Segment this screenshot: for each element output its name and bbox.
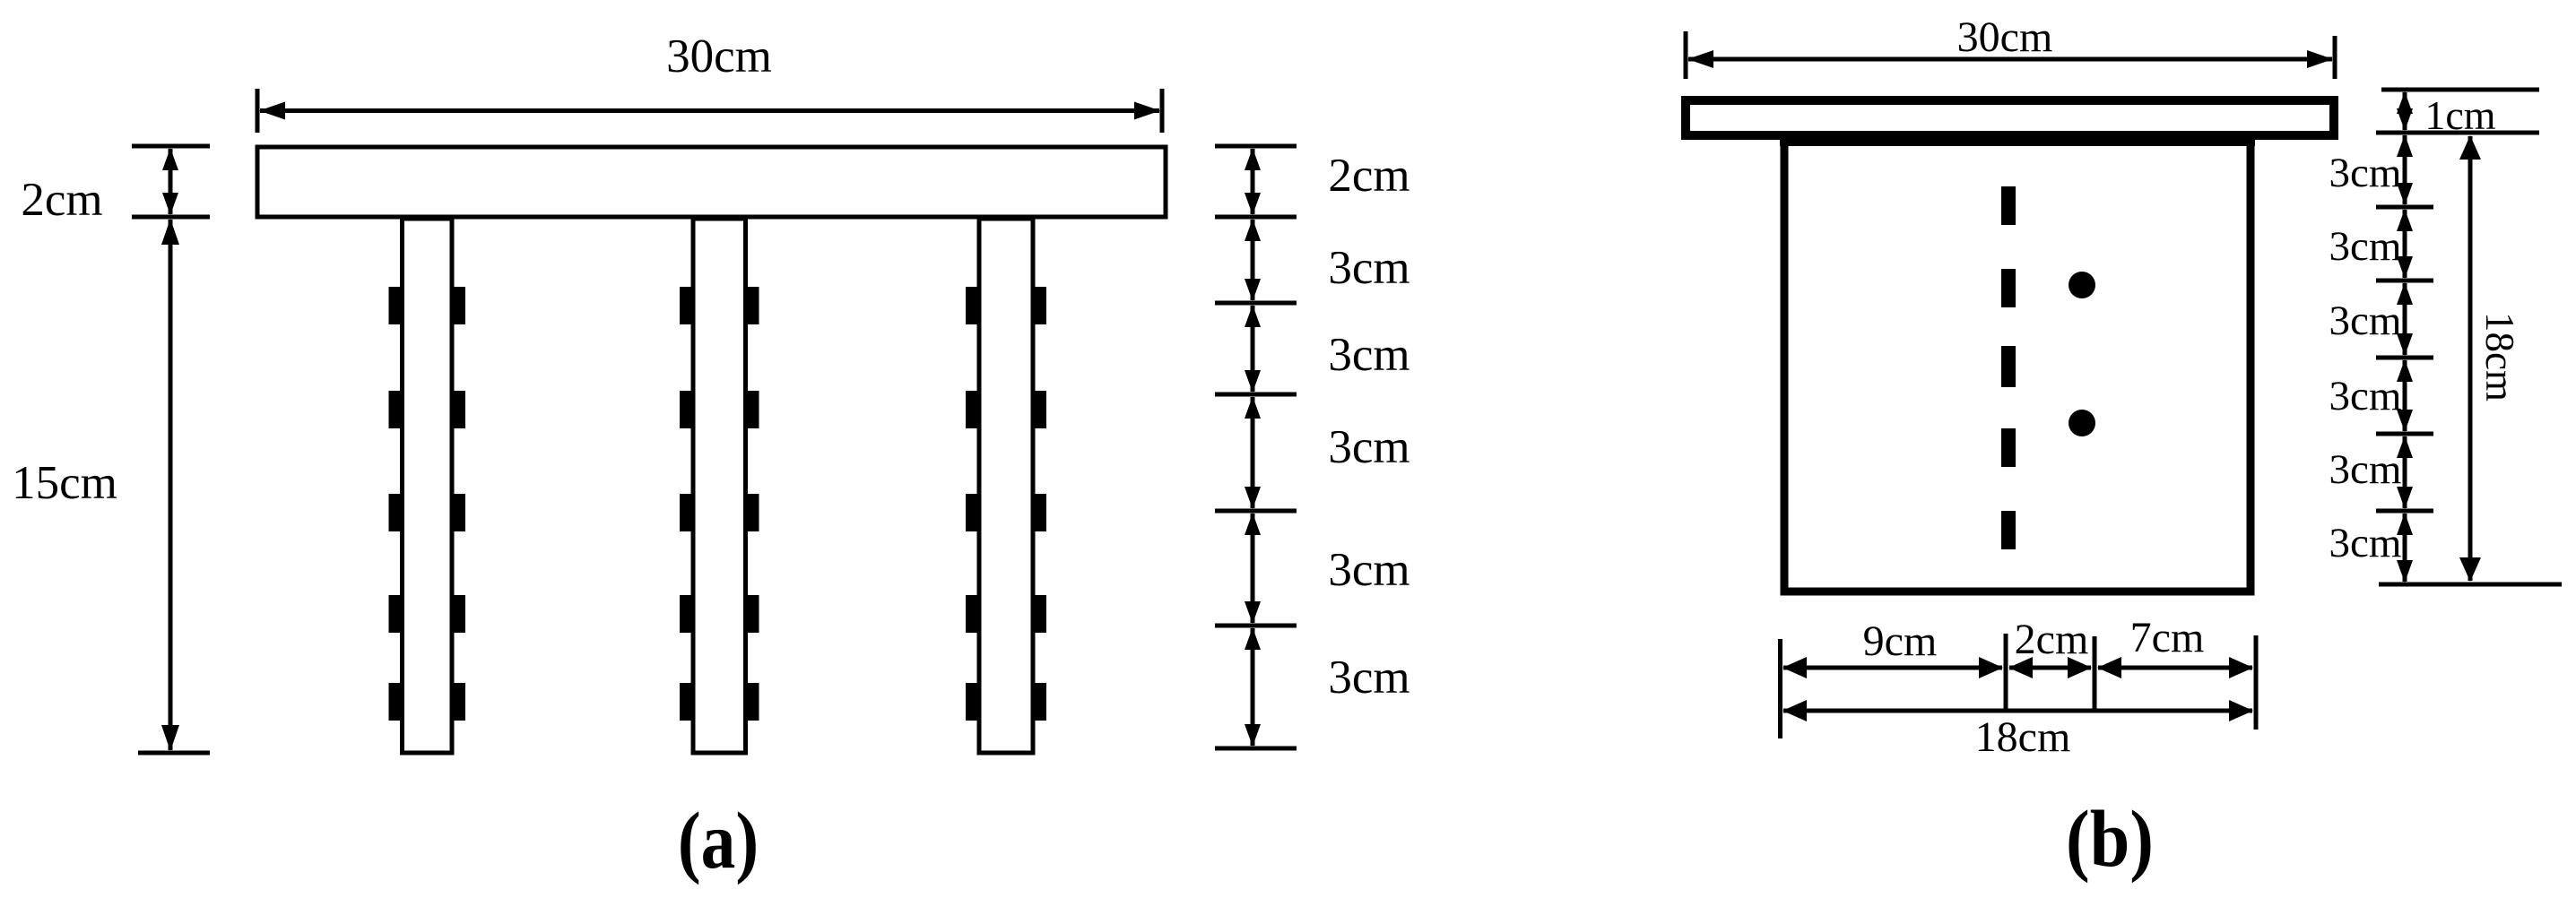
svg-text:3cm: 3cm bbox=[2329, 223, 2402, 270]
svg-text:(b): (b) bbox=[2066, 795, 2154, 884]
svg-text:30cm: 30cm bbox=[666, 30, 772, 82]
svg-text:3cm: 3cm bbox=[2329, 520, 2402, 566]
18cm dimension bottom (b) bbox=[1783, 709, 2252, 713]
30cm dimension (b) bbox=[1686, 31, 2335, 79]
svg-text:3cm: 3cm bbox=[2329, 373, 2402, 419]
svg-text:(a): (a) bbox=[678, 797, 759, 886]
svg-text:3cm: 3cm bbox=[2329, 298, 2402, 344]
top slab (b) bbox=[1686, 100, 2334, 135]
18cm vertical dimension (b) bbox=[2468, 136, 2473, 581]
svg-text:15cm: 15cm bbox=[12, 457, 117, 509]
dashed centerline (b) bbox=[2001, 186, 2016, 549]
9cm dimension (b) bbox=[1783, 666, 2002, 670]
bottom extension lines (b) bbox=[1781, 634, 2257, 738]
strain point upper (b) bbox=[2069, 272, 2095, 298]
svg-text:2cm: 2cm bbox=[21, 174, 102, 226]
right stack (b) extension lines bbox=[2376, 90, 2562, 584]
svg-text:18cm: 18cm bbox=[2477, 312, 2522, 402]
2cm dimension left (a) bbox=[132, 146, 210, 217]
30cm dimension (a) bbox=[257, 89, 1162, 133]
right dimension stack (a) ticks bbox=[1215, 146, 1297, 748]
strain point lower (b) bbox=[2069, 410, 2095, 436]
strain gauge marks pile 2 bbox=[680, 287, 759, 721]
svg-text:1cm: 1cm bbox=[2424, 92, 2495, 138]
7cm dimension (b) bbox=[2098, 666, 2252, 670]
svg-text:3cm: 3cm bbox=[2329, 446, 2402, 493]
pile 3 bbox=[979, 219, 1033, 753]
svg-text:3cm: 3cm bbox=[1328, 652, 1409, 704]
thick interface line (b) bbox=[1780, 132, 2255, 146]
svg-text:3cm: 3cm bbox=[2329, 150, 2402, 196]
svg-text:3cm: 3cm bbox=[1328, 242, 1409, 294]
svg-text:9cm: 9cm bbox=[1863, 617, 1938, 665]
3cm labels (b) bbox=[2329, 150, 2402, 566]
2cm dimension (b) bbox=[2009, 666, 2091, 670]
1cm dimension (b) bbox=[2403, 92, 2407, 130]
strain gauge marks pile 3 bbox=[966, 287, 1046, 721]
right stack labels (a) bbox=[1328, 150, 1409, 704]
svg-text:3cm: 3cm bbox=[1328, 544, 1409, 596]
pile 1 bbox=[403, 219, 453, 753]
svg-text:2cm: 2cm bbox=[1328, 150, 1409, 202]
svg-text:7cm: 7cm bbox=[2130, 614, 2205, 661]
svg-text:18cm: 18cm bbox=[1975, 713, 2071, 761]
svg-text:3cm: 3cm bbox=[1328, 421, 1409, 473]
pile 2 bbox=[693, 219, 746, 753]
pile cap slab bbox=[257, 147, 1166, 217]
3cm arrow segments (b) bbox=[2403, 135, 2407, 582]
svg-text:30cm: 30cm bbox=[1957, 13, 2053, 61]
right dimension stack (a) arrows bbox=[1251, 149, 1255, 746]
body block (b) bbox=[1784, 139, 2251, 591]
15cm dimension left (a) bbox=[138, 220, 210, 753]
svg-text:2cm: 2cm bbox=[2015, 616, 2089, 663]
svg-text:3cm: 3cm bbox=[1328, 329, 1409, 381]
strain gauge marks pile 1 bbox=[389, 287, 466, 721]
